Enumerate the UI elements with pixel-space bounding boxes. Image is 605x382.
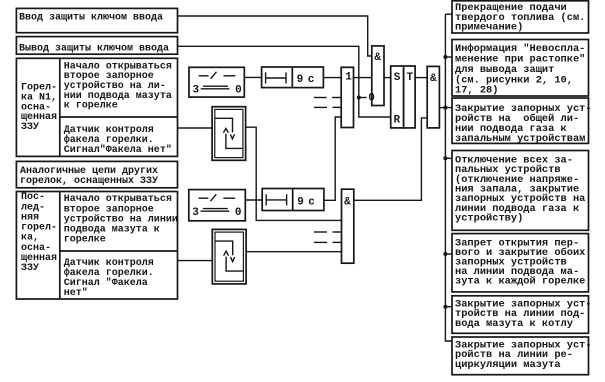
edge detector U2 (pulse former) <box>212 229 246 284</box>
node on bus at box 5 <box>443 252 447 256</box>
output box 7: Закрытие запорных устройств на линии рециркуляции <box>452 337 592 375</box>
svg-text:зута к каждой горелке: зута к каждой горелке <box>455 275 585 287</box>
node on bus at box 2 <box>443 55 447 59</box>
svg-text:3: 3 <box>192 207 199 219</box>
svg-text:1: 1 <box>345 71 352 83</box>
svg-text:факела горелки.: факела горелки. <box>64 266 154 279</box>
AND gate D3 (flame sensors) <box>342 189 354 263</box>
svg-text:Ввод защиты ключом ввода: Ввод защиты ключом ввода <box>19 12 163 23</box>
OR gate D1 <box>341 67 353 127</box>
timer DT2 (9 s delay) <box>262 189 324 211</box>
svg-text:запальным устройствам: запальным устройствам <box>455 133 585 145</box>
timer DT1 (9 s delay) <box>262 67 324 88</box>
compound box: Последняя горелка, оснащенная ЗЗУ <box>16 192 177 300</box>
output box 4: Отключение всех запальных устройств <box>452 151 589 231</box>
input box: Ввод защиты ключом ввода <box>16 8 177 32</box>
svg-text:c: c <box>308 74 315 86</box>
key switch S1 (3-0 contact) <box>189 67 244 97</box>
svg-text:&: & <box>430 73 437 85</box>
svg-text:циркуляции мазута: циркуляции мазута <box>455 359 561 371</box>
output box 3: Закрытие запорных устройств на общей линии газа <box>452 98 592 145</box>
wire: AND gate D3 output to AND gate D5 input <box>354 118 427 200</box>
box: Аналогичные цепи других горелок <box>16 161 177 187</box>
output box 5: Запрет открытия первого и закрытие обоих запорных устройств <box>452 234 589 292</box>
svg-text:S: S <box>394 72 401 84</box>
wire S2 to timer DT2 <box>245 199 262 201</box>
wire: OR gate D1 to AND gate D2 <box>354 77 372 79</box>
wire DT1 to OR gate D1 <box>323 77 341 79</box>
node: junction on Вывод wire <box>357 96 361 100</box>
svg-text:ЗЗУ: ЗЗУ <box>21 122 39 133</box>
svg-text:Вывод защиты ключом ввода: Вывод защиты ключом ввода <box>19 43 169 54</box>
svg-text:&: & <box>374 52 381 64</box>
svg-text:9: 9 <box>297 74 304 86</box>
svg-text:к горелке: к горелке <box>64 101 118 112</box>
svg-text:c: c <box>308 196 315 208</box>
wire: box Ввод защиты to AND gate D2 <box>178 16 372 56</box>
svg-text:17, 28): 17, 28) <box>455 84 498 96</box>
output box 6: Закрытие запорных устройств на линии мазута к котлу <box>452 296 592 334</box>
key switch S2 (3-0 contact) <box>189 190 246 221</box>
wire: trigger T output to AND gate D5 <box>415 77 427 79</box>
svg-text:9: 9 <box>297 196 304 208</box>
wire stub to output box 1 <box>445 13 452 15</box>
output box 1: Прекращение подачи твердого топлива <box>452 1 589 34</box>
wire stub to output box 5 <box>445 253 452 255</box>
AND gate D5 (output gate) <box>427 66 439 128</box>
node on bus at box 4 <box>443 156 447 160</box>
svg-text:&: & <box>344 196 351 208</box>
node on bus at box 3 <box>443 106 447 110</box>
svg-text:T: T <box>407 72 414 84</box>
input box: Вывод защиты ключом ввода <box>16 37 177 55</box>
wire: box Вывод защиты down to R input <box>178 46 391 117</box>
wire: inverted input 0 of AND gate D2 <box>359 97 367 99</box>
output bus (vertical) <box>445 14 452 341</box>
RS trigger D4 (S T R) <box>391 66 415 128</box>
wire DT2 output up to OR gate D1 <box>324 117 341 200</box>
input cell: Начало открываться второе запорное устройство (горелка N1) <box>64 61 172 111</box>
input cell: Датчик контроля факела горелки (горелка N1) <box>64 125 172 156</box>
wire stub to output box 4 <box>445 157 452 159</box>
compound box: Горелка N1, оснащенная ЗЗУ <box>16 58 177 156</box>
output box 2: Информация Невоспламенение при растопке <box>452 40 589 97</box>
wire: U2 output to AND gate D3 <box>246 251 341 253</box>
wire stub to output box 6 <box>445 306 452 308</box>
svg-text:примечание): примечание) <box>455 21 523 33</box>
edge detector U1 (pulse former) <box>212 107 246 161</box>
wire: AND gate D2 to S input <box>384 77 391 79</box>
svg-text:горелок, оснащенных ЗЗУ: горелок, оснащенных ЗЗУ <box>20 176 158 187</box>
input cell: Начало открываться второе запорное устройство (последняя горелка) <box>64 194 178 246</box>
svg-text:Сигнал"Факела нет": Сигнал"Факела нет" <box>64 144 172 156</box>
svg-text:ЗЗУ: ЗЗУ <box>21 263 39 274</box>
svg-text:3: 3 <box>193 84 200 96</box>
svg-text:0: 0 <box>235 207 242 219</box>
svg-text:устройство на линии: устройство на линии <box>64 213 178 225</box>
ellipsis dashes: other burners into AND gate D3 <box>314 232 342 242</box>
input cell: Датчик контроля факела горелки (последняя горелка) <box>64 258 154 299</box>
wire: AND gate D5 output joining bus <box>439 107 452 109</box>
wire: U1 output to AND gate D3 <box>246 127 342 220</box>
wire: Датчик N1 to U1 <box>178 127 213 129</box>
node on bus at box 6 <box>443 305 447 309</box>
ellipsis dashes: other burners into OR gate <box>314 98 341 108</box>
svg-text:вода мазута к котлу: вода мазута к котлу <box>455 318 574 330</box>
svg-text:горелке: горелке <box>64 235 106 246</box>
svg-text:R: R <box>394 115 401 127</box>
wire stub to output box 2 <box>445 56 452 58</box>
svg-text:устройству): устройству) <box>455 213 523 225</box>
wire: Датчик last burner to U2 <box>178 260 213 262</box>
svg-text:0: 0 <box>235 84 242 96</box>
AND gate D2 <box>372 46 384 106</box>
svg-text:нет": нет" <box>64 287 88 299</box>
wire S1 to timer DT1 <box>244 76 261 78</box>
